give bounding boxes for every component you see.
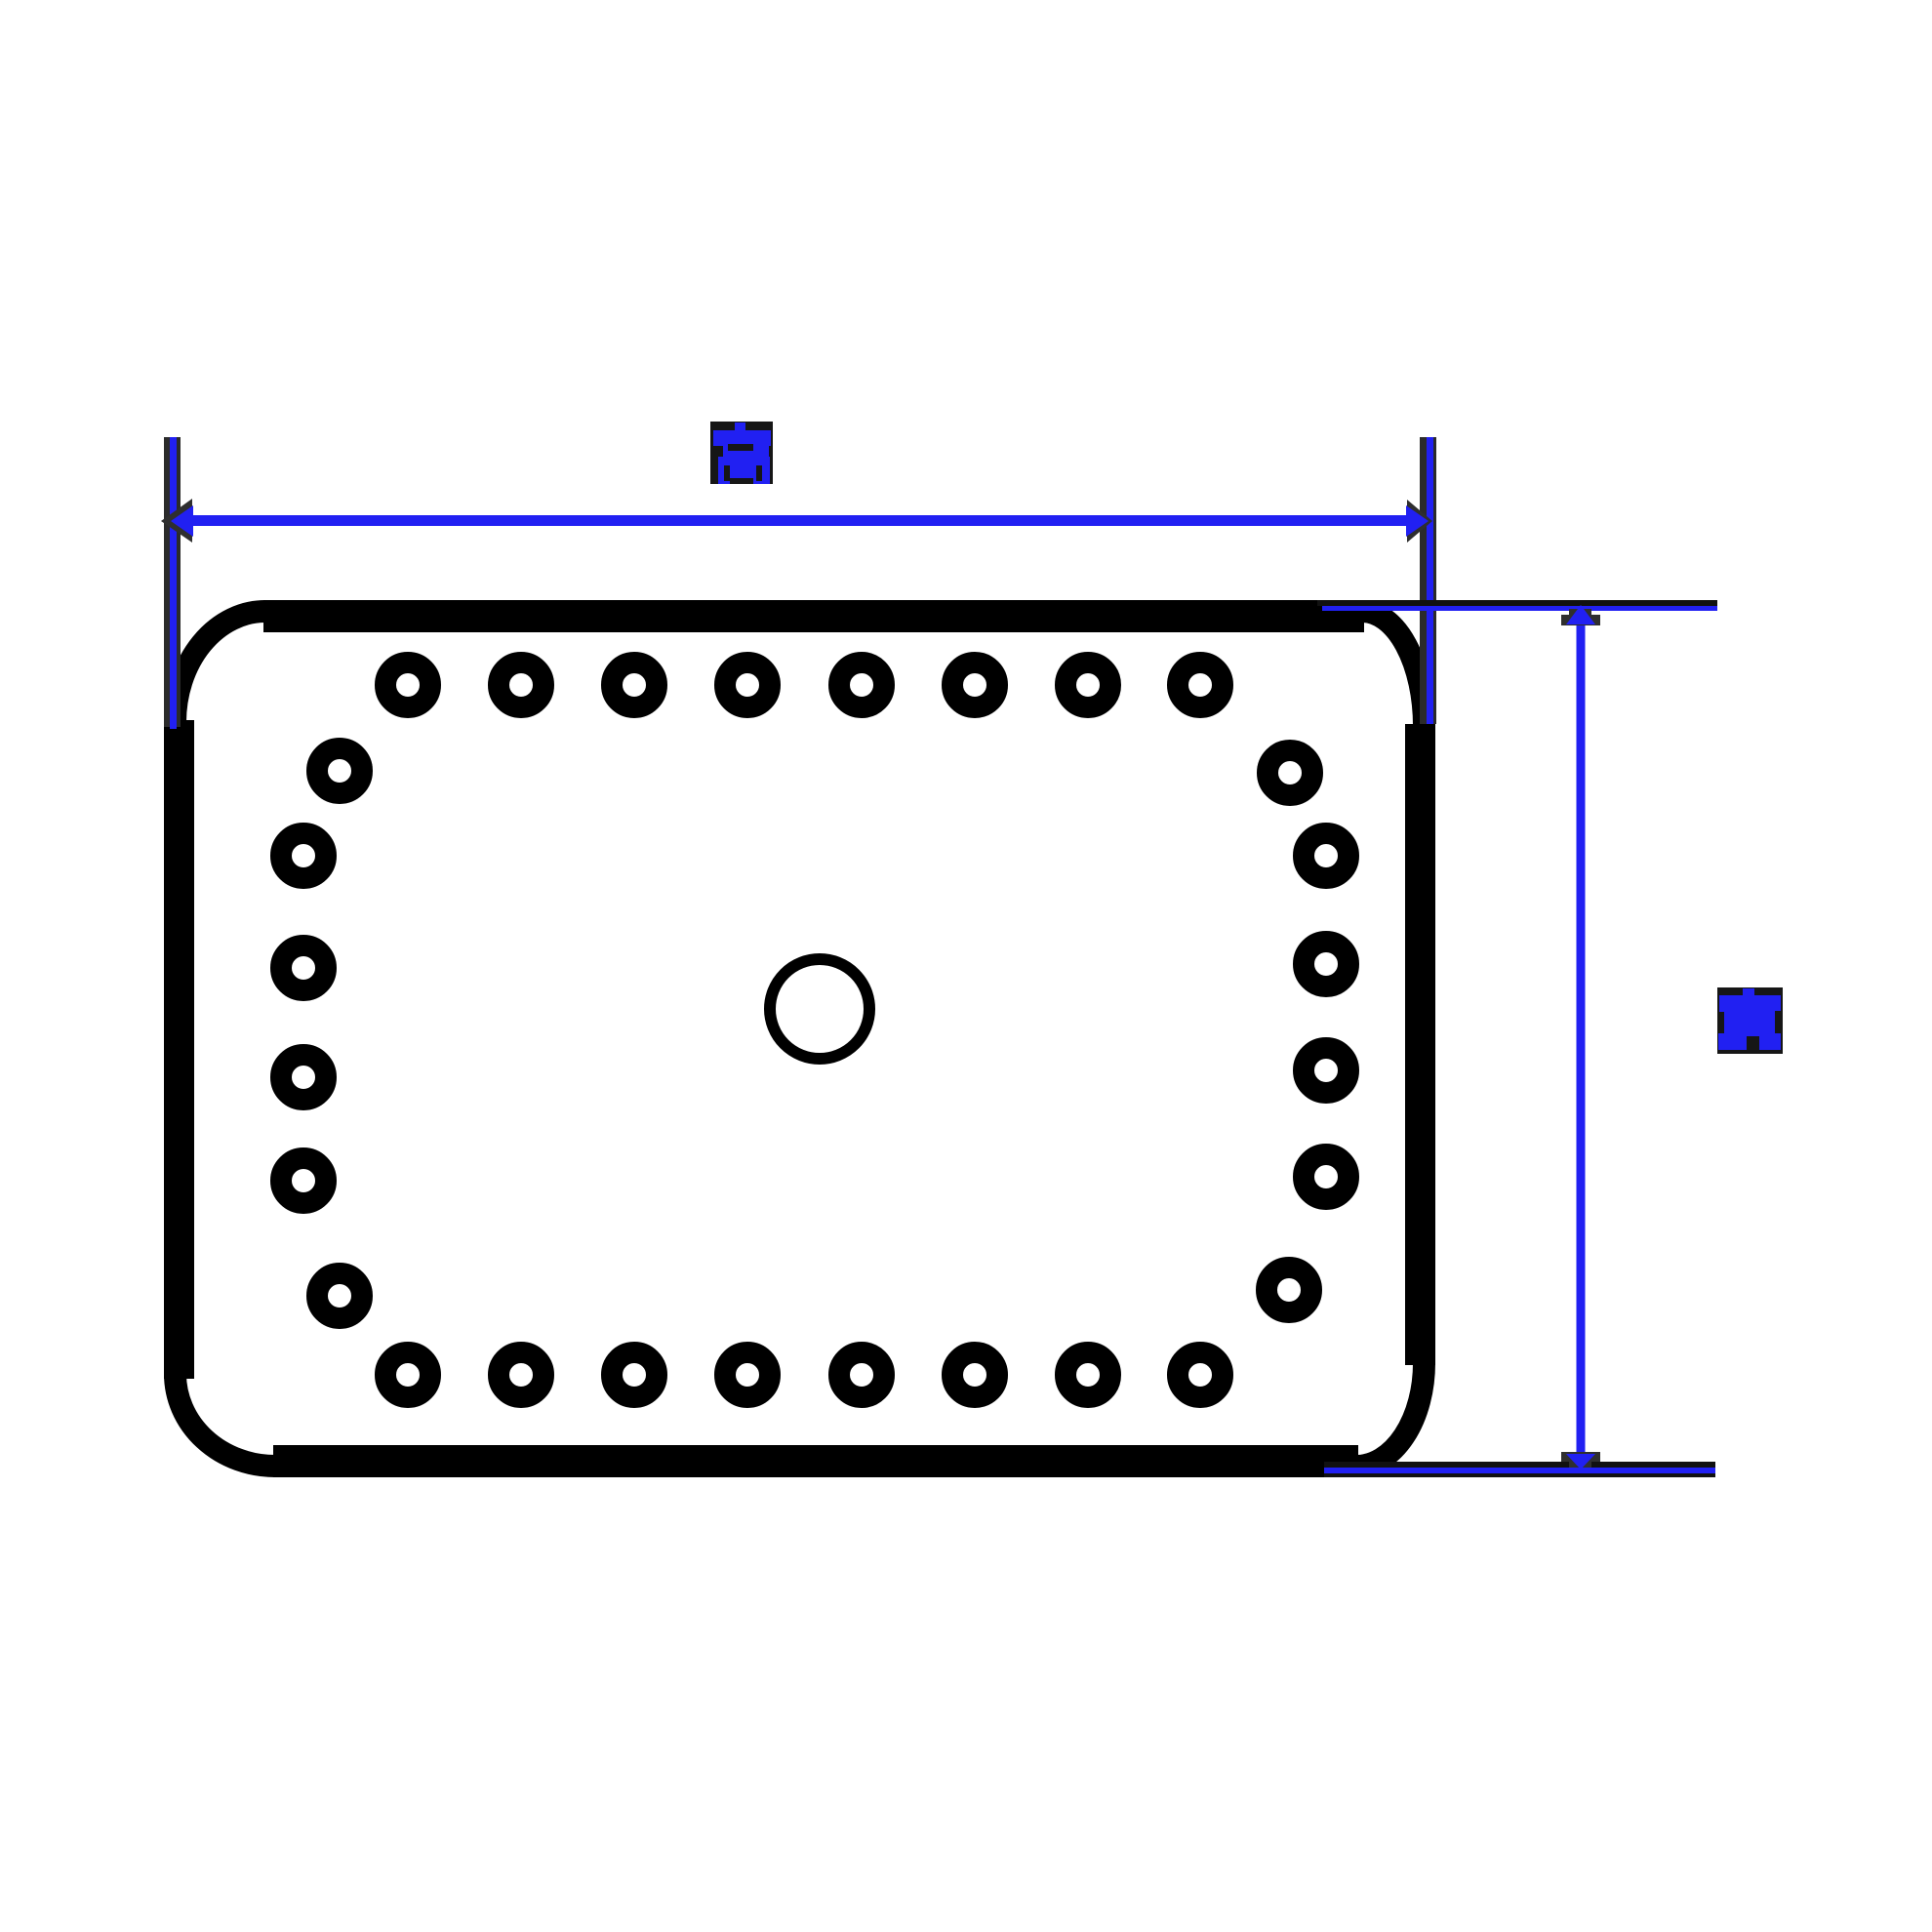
hole B4 [725,1352,770,1397]
width dim right arrowhead [1407,500,1432,543]
hole T7 [1066,663,1110,707]
hole corner BR [1267,1268,1311,1312]
plate outline: left edge [164,720,194,1379]
plate outline: bottom edge [273,1445,1358,1477]
hole T8 [1178,663,1223,707]
width dim left arrowhead [161,499,192,543]
hole B1 [385,1352,430,1397]
height dim top arrowhead [1561,609,1600,625]
label 宽 glyph strokes (blue) [1718,988,1781,1050]
width dimension line (blue) [185,515,1415,526]
hole B7 [1066,1352,1110,1397]
right extension line (blue) [1427,437,1433,724]
hole R1 [1304,833,1348,878]
hole L4 [281,1158,326,1203]
hole B5 [839,1352,884,1397]
hole corner BL [317,1273,362,1318]
plate outline: top edge [263,600,1364,632]
hole B3 [612,1352,657,1397]
hole corner TL [317,748,362,793]
perimeter holes [281,663,1348,1397]
hole T3 [612,663,657,707]
hole B6 [952,1352,997,1397]
hole B8 [1178,1352,1223,1397]
right extension line (dark) [1420,437,1436,724]
hole B2 [499,1352,543,1397]
plate outline: bottom-left corner arc [176,1374,276,1467]
plate outline: bottom-right corner arc [1356,1363,1425,1467]
plate outline: right edge [1405,724,1435,1365]
hole L2 [281,946,326,990]
top-right extension line (blue) [1322,606,1717,611]
hole T2 [499,663,543,707]
label 高 glyph strokes (blue) [713,423,771,484]
label 宽 (height dim label) box [1717,987,1783,1054]
left extension line (blue) [170,437,177,729]
height dimension line (blue, right side) [1577,611,1586,1469]
hole R3 [1304,1048,1348,1093]
plate outline: top-left corner arc [176,612,266,723]
bottom-right extension line (black) [1324,1462,1715,1477]
hole T1 [385,663,430,707]
hole R4 [1304,1154,1348,1199]
hole T4 [725,663,770,707]
hole corner TR [1268,750,1312,795]
label 高 (width dim label) box [710,422,773,484]
hole R2 [1304,942,1348,986]
hole L3 [281,1055,326,1100]
plate outline: top-right corner arc [1362,612,1425,727]
top-right extension line (black) [1317,600,1717,606]
height dim bottom arrowhead [1561,1452,1600,1468]
left extension line (dark) [164,437,181,727]
hole T5 [839,663,884,707]
hole L1 [281,833,326,878]
center hole [770,959,869,1059]
hole T6 [952,663,997,707]
bottom-right extension line (blue) [1324,1468,1715,1473]
